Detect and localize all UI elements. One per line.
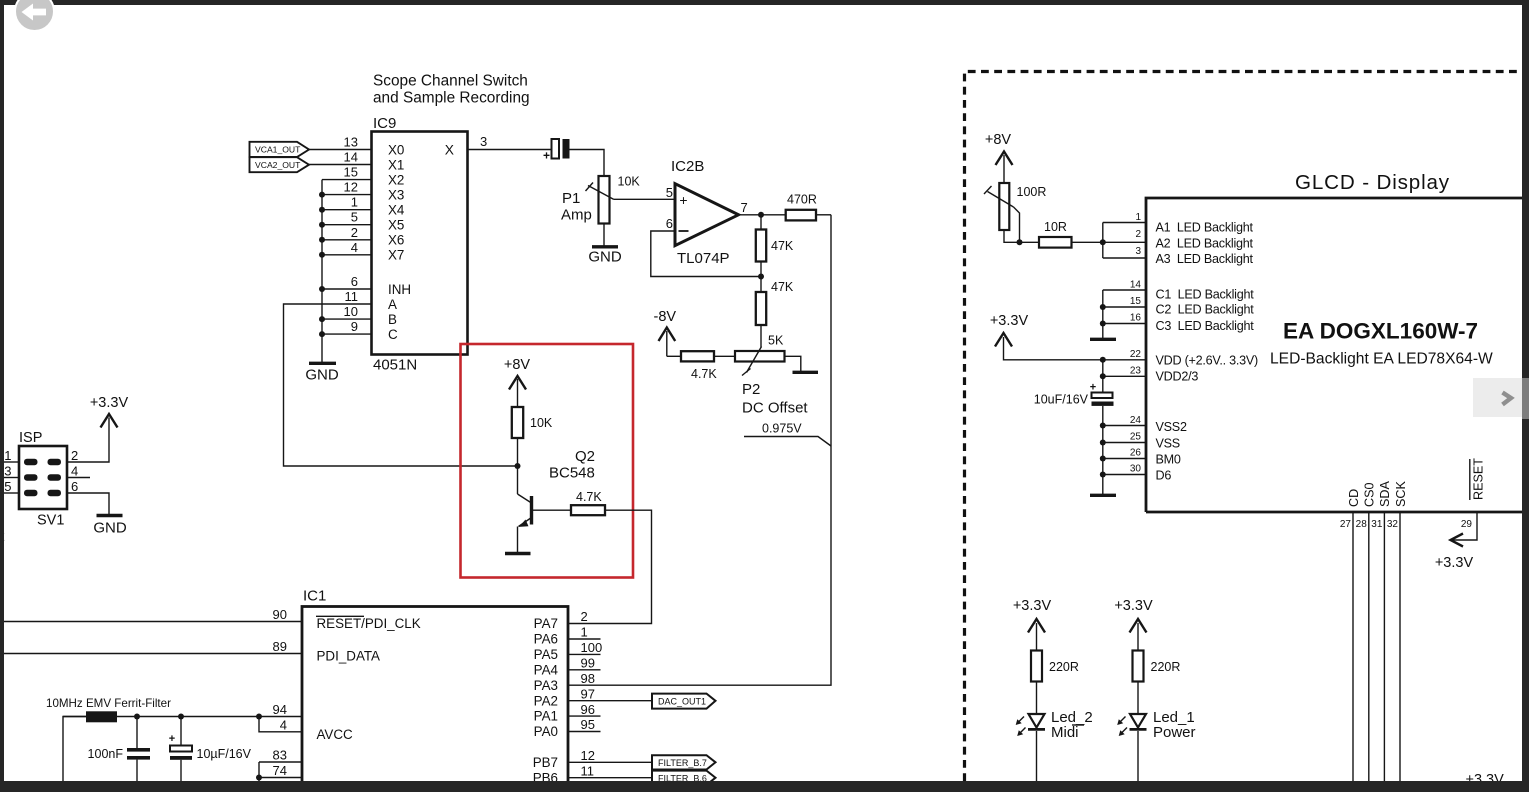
IC1 right pin names [533, 616, 559, 785]
svg-text:+8V: +8V [985, 132, 1012, 148]
ground below C3 [1090, 338, 1116, 341]
wire SV1 pin 4 stub [67, 477, 90, 479]
svg-text:+3.3V: +3.3V [1114, 598, 1153, 614]
wire RESET to +3.3V arrow [1435, 512, 1477, 571]
svg-text:100: 100 [581, 640, 603, 655]
resistor 4.7K [681, 351, 735, 381]
svg-text:0.975V: 0.975V [762, 422, 802, 436]
svg-text:+3.3V: +3.3V [90, 395, 129, 411]
svg-text:FILTER_B.7: FILTER_B.7 [658, 758, 707, 768]
wire SV1 pin 6 to ground [67, 493, 109, 515]
svg-text:15: 15 [344, 165, 358, 180]
svg-text:1: 1 [581, 625, 588, 640]
ground below D6 [1090, 494, 1116, 497]
red annotation highlight box [461, 344, 634, 578]
svg-text:3: 3 [1135, 246, 1141, 257]
wire capacitor to P1 [570, 150, 605, 177]
svg-text:4: 4 [351, 240, 358, 255]
svg-text:C1 LED Backlight: C1 LED Backlight [1156, 288, 1255, 302]
IC9 left pin stub wires [322, 180, 372, 335]
svg-text:5: 5 [666, 185, 673, 200]
svg-text:TL074P: TL074P [677, 250, 730, 267]
display bottom pin numbers 27 28 31 32 [1340, 519, 1399, 530]
svg-text:12: 12 [344, 180, 358, 195]
svg-text:96: 96 [581, 702, 595, 717]
supply +8V arrow (Q2) [504, 357, 531, 407]
svg-text:A2 LED Backlight: A2 LED Backlight [1156, 237, 1254, 251]
wire IC2B output pin7 [739, 214, 786, 216]
wire vertical net down to PA3 [568, 215, 831, 685]
svg-text:PA2: PA2 [534, 693, 558, 708]
svg-text:4.7K: 4.7K [576, 490, 602, 504]
display pin SDA [1378, 481, 1392, 781]
junction output node [758, 212, 764, 218]
svg-text:A: A [388, 297, 397, 312]
svg-text:A1 LED Backlight: A1 LED Backlight [1156, 221, 1254, 235]
svg-text:24: 24 [1130, 415, 1142, 426]
wire 10R to backlight pins [1072, 241, 1103, 243]
junction dots on IC9 bus [319, 192, 325, 338]
wire 470R to right vertical net [816, 214, 831, 216]
net flag VCA1_OUT [250, 142, 310, 157]
svg-text:EA DOGXL160W-7: EA DOGXL160W-7 [1283, 319, 1478, 344]
svg-text:32: 32 [1387, 519, 1399, 530]
svg-text:14: 14 [344, 150, 358, 165]
wire Q2 emitter to ground [517, 527, 519, 553]
svg-text:94: 94 [273, 702, 287, 717]
wire pin 4 branch [259, 717, 302, 732]
svg-text:GLCD - Display: GLCD - Display [1295, 171, 1450, 194]
svg-text:74: 74 [273, 763, 287, 778]
resistor 220R (Led_2) [1031, 651, 1079, 682]
svg-text:83: 83 [273, 748, 287, 763]
svg-text:PDI_DATA: PDI_DATA [317, 649, 381, 664]
svg-text:and Sample Recording: and Sample Recording [373, 90, 530, 107]
svg-text:6: 6 [71, 479, 78, 494]
svg-text:+3.3V: +3.3V [1435, 555, 1474, 571]
LED Led_1 Power [1117, 682, 1195, 782]
svg-text:SV1: SV1 [37, 513, 64, 529]
svg-text:5: 5 [4, 479, 11, 494]
svg-text:14: 14 [1130, 280, 1142, 291]
net flag FILTER_B.7 [652, 755, 716, 769]
wire IC9 ground bus [321, 180, 323, 362]
wire VDD2/3 pin 23 [1103, 375, 1146, 377]
svg-text:27: 27 [1340, 519, 1352, 530]
wire IC2B feedback loop pin6 to output node [651, 231, 761, 277]
svg-text:11: 11 [581, 763, 595, 778]
svg-text:11: 11 [345, 289, 359, 304]
potentiometer P2 5K DC Offset [735, 334, 808, 417]
svg-text:5: 5 [351, 210, 358, 225]
svg-text:1: 1 [351, 195, 358, 210]
display pin CD [1347, 489, 1361, 781]
svg-text:97: 97 [581, 686, 595, 701]
svg-text:SDA: SDA [1378, 481, 1392, 507]
svg-text:DC Offset: DC Offset [742, 400, 808, 417]
svg-text:GND: GND [93, 520, 127, 537]
svg-text:100nF: 100nF [88, 747, 124, 761]
resistor 47K upper [756, 215, 794, 262]
svg-text:10uF/16V: 10uF/16V [1034, 393, 1089, 407]
svg-text:BC548: BC548 [549, 465, 595, 482]
dashed region border GLCD [965, 72, 1529, 782]
ground at P2 right [785, 356, 819, 372]
svg-text:IC2B: IC2B [671, 158, 704, 175]
svg-text:10K: 10K [530, 416, 553, 430]
svg-text:GND: GND [588, 249, 622, 266]
svg-text:470R: 470R [787, 193, 817, 207]
LED Led_2 Midi [1016, 682, 1093, 782]
svg-text:4: 4 [71, 464, 78, 479]
svg-text:C2 LED Backlight: C2 LED Backlight [1156, 303, 1255, 317]
svg-text:+3.3V: +3.3V [990, 313, 1029, 329]
svg-text:VSS2: VSS2 [1156, 420, 1187, 434]
supply +3.3V arrow (Led_2) [1013, 598, 1052, 651]
display module EA DOGXL160W-7 box [1146, 171, 1529, 512]
svg-text:+: + [679, 192, 687, 208]
supply +3.3V arrow (Led_1) [1114, 598, 1153, 651]
svg-text:PA0: PA0 [534, 724, 558, 739]
net flag VCA2_OUT [250, 157, 310, 172]
svg-text:X4: X4 [388, 203, 405, 218]
wire 47K to middle node [760, 262, 762, 293]
svg-text:B: B [388, 312, 397, 327]
svg-text:RESET/PDI_CLK: RESET/PDI_CLK [317, 616, 421, 631]
capacitor 10uF/16V polarized [169, 717, 252, 783]
svg-text:4051N: 4051N [373, 357, 417, 374]
svg-text:+8V: +8V [504, 357, 531, 373]
svg-text:2: 2 [71, 448, 78, 463]
wire 47K to P2 wiper [760, 325, 762, 347]
svg-text:X7: X7 [388, 248, 404, 263]
svg-text:6: 6 [351, 274, 358, 289]
wire pin 74 branch [259, 762, 302, 778]
wire RESET/PDI_CLK from left [4, 621, 302, 623]
junction dots on filter rail [134, 714, 140, 720]
polarized coupling capacitor [543, 139, 570, 163]
svg-text:2: 2 [581, 609, 588, 624]
svg-text:X1: X1 [388, 157, 404, 172]
svg-text:X: X [445, 142, 454, 157]
ground below IC9 [305, 363, 339, 383]
ground below P1 [588, 224, 622, 266]
supply -8V arrow [654, 309, 682, 356]
svg-text:+3.3V: +3.3V [1013, 598, 1052, 614]
wires SV1 left pins [4, 462, 19, 493]
svg-text:15: 15 [1130, 296, 1142, 307]
svg-text:C: C [388, 327, 398, 342]
svg-text:23: 23 [1130, 366, 1142, 377]
IC1 left pin numbers [273, 607, 287, 778]
resistor 4.7K (Q2 base) [571, 490, 605, 515]
svg-text:2: 2 [351, 225, 358, 240]
svg-text:X0: X0 [388, 142, 404, 157]
svg-text:VSS: VSS [1156, 437, 1180, 451]
svg-text:47K: 47K [771, 239, 794, 253]
svg-text:AVCC: AVCC [317, 727, 354, 742]
svg-text:X2: X2 [388, 172, 404, 187]
svg-text:220R: 220R [1151, 660, 1181, 674]
display pin RESET (29) [1461, 458, 1486, 530]
svg-text:2: 2 [1135, 229, 1141, 240]
wire P1 wiper to IC2B +input [614, 198, 676, 200]
back arrow icon [15, 0, 55, 30]
svg-text:VDD2/3: VDD2/3 [1156, 370, 1199, 384]
display pin labels left [1156, 221, 1259, 483]
svg-text:16: 16 [1130, 313, 1142, 324]
wire 10K to collector node [517, 438, 519, 494]
wire PB7 to FILTER_B.7 [568, 761, 652, 763]
svg-text:4: 4 [280, 717, 287, 732]
wire pin 83 [259, 761, 302, 763]
svg-text:10K: 10K [618, 175, 641, 189]
wire VCA2_OUT to IC9 pin 14 [309, 164, 372, 166]
potentiometer P1 10K [561, 175, 640, 224]
svg-text:BM0: BM0 [1156, 453, 1181, 467]
next page button [1473, 378, 1522, 417]
wire PA2 to DAC_OUT1 [568, 700, 652, 702]
viewer frame bottom bar [0, 781, 1529, 792]
svg-text:X3: X3 [388, 187, 404, 202]
svg-text:22: 22 [1130, 349, 1142, 360]
svg-text:PA3: PA3 [534, 678, 558, 693]
capacitor 10uF/16V (display) [1034, 382, 1114, 407]
wire VCA1_OUT to IC9 pin 13 [309, 149, 372, 151]
svg-text:PB7: PB7 [533, 755, 558, 770]
svg-text:DAC_OUT1: DAC_OUT1 [658, 697, 706, 707]
svg-text:INH: INH [388, 282, 411, 297]
wire AVCC filter rail pin 94 [63, 716, 302, 718]
svg-text:47K: 47K [771, 280, 794, 294]
viewer frame top bar [0, 0, 1529, 5]
svg-text:90: 90 [273, 607, 287, 622]
svg-text:PA1: PA1 [534, 709, 558, 724]
supply +3.3V arrow (VDD) [990, 313, 1146, 360]
op-amp IC2B TL074P [666, 158, 748, 267]
svg-text:D6: D6 [1156, 469, 1172, 483]
svg-text:7: 7 [741, 200, 748, 215]
svg-text:P1: P1 [562, 190, 580, 207]
svg-text:13: 13 [344, 135, 358, 150]
svg-text:1: 1 [4, 448, 11, 463]
potentiometer 100R [984, 183, 1046, 242]
back button [14, 0, 55, 32]
svg-text:VDD (+2.6V.. 3.3V): VDD (+2.6V.. 3.3V) [1156, 354, 1259, 368]
svg-text:+: + [543, 149, 550, 163]
svg-text:29: 29 [1461, 519, 1473, 530]
svg-text:10µF/16V: 10µF/16V [197, 747, 252, 761]
wire PB6 to FILTER_B.6 [568, 777, 652, 779]
svg-text:GND: GND [305, 367, 339, 384]
resistor 10R [1039, 220, 1072, 248]
svg-text:X5: X5 [388, 218, 404, 233]
wire 100R bottom to 10R [1004, 230, 1039, 242]
wire PDI_DATA from left [4, 653, 302, 655]
ground Q2 emitter [505, 552, 531, 555]
scrollbar track [1522, 0, 1529, 792]
svg-text:25: 25 [1130, 432, 1142, 443]
junction collector node [515, 463, 521, 469]
svg-text:SCK: SCK [1394, 481, 1408, 507]
ground at SV1 [93, 516, 127, 537]
svg-text:220R: 220R [1049, 660, 1079, 674]
svg-text:89: 89 [273, 639, 287, 654]
svg-text:95: 95 [581, 717, 595, 732]
svg-text:Scope Channel Switch: Scope Channel Switch [373, 73, 528, 90]
svg-text:28: 28 [1356, 519, 1368, 530]
wire Q2 base [533, 509, 571, 511]
resistor 220R (Led_1) [1133, 651, 1181, 682]
svg-text:6: 6 [666, 216, 673, 231]
net flag FILTER_B.6 [652, 771, 716, 785]
svg-text:-8V: -8V [654, 309, 677, 325]
svg-text:Amp: Amp [561, 207, 592, 224]
connector SV1 ISP header [19, 430, 67, 529]
viewer frame left bar [0, 0, 4, 792]
svg-text:CS0: CS0 [1363, 483, 1377, 508]
transistor Q2 BC548 [518, 448, 596, 527]
resistor 470R [786, 193, 817, 221]
svg-text:P2: P2 [742, 381, 760, 398]
IC1 right pin stub wires [568, 639, 601, 732]
svg-text:Midi: Midi [1051, 724, 1079, 741]
svg-text:5K: 5K [768, 334, 784, 348]
svg-text:PA7: PA7 [534, 616, 558, 631]
svg-text:VCA2_OUT: VCA2_OUT [255, 160, 301, 170]
wire filter left leg [63, 717, 86, 783]
display pin CS0 [1363, 483, 1377, 782]
svg-text:ISP: ISP [19, 430, 42, 446]
SV1 pin numbers [4, 448, 78, 494]
display pin numbers left [1130, 212, 1142, 475]
svg-text:PA5: PA5 [534, 647, 558, 662]
svg-text:12: 12 [581, 748, 595, 763]
next chevron icon [1473, 378, 1522, 417]
wires display pins C1-C3 to ground [1100, 290, 1146, 339]
svg-text:PA4: PA4 [534, 662, 559, 677]
svg-text:PA6: PA6 [534, 632, 558, 647]
svg-text:3: 3 [480, 134, 487, 149]
scrollbar thumb [1522, 378, 1529, 419]
wire IC9 pin X(3) to coupling capacitor [468, 149, 552, 151]
svg-text:Q2: Q2 [575, 448, 595, 465]
svg-text:3: 3 [4, 464, 11, 479]
wires display pins 1-3 [1103, 223, 1146, 259]
svg-text:30: 30 [1130, 464, 1142, 475]
op IC9 box 4051N [372, 115, 468, 374]
IC1 right pin numbers [581, 609, 603, 778]
svg-text:10R: 10R [1044, 220, 1067, 234]
resistor 47K lower [756, 280, 794, 325]
svg-text:IC9: IC9 [373, 115, 396, 132]
svg-text:A3 LED Backlight: A3 LED Backlight [1156, 252, 1254, 266]
svg-text:4.7K: 4.7K [691, 367, 717, 381]
svg-text:31: 31 [1371, 519, 1383, 530]
svg-text:Power: Power [1153, 724, 1196, 741]
svg-text:IC1: IC1 [303, 588, 326, 605]
svg-text:10: 10 [344, 304, 358, 319]
svg-text:LED-Backlight EA LED78X64-W: LED-Backlight EA LED78X64-W [1270, 351, 1493, 368]
svg-text:C3 LED Backlight: C3 LED Backlight [1156, 319, 1255, 333]
IC9 pin numbers [344, 135, 358, 335]
wire IC9 pin A (11) to Q2 collector node [284, 304, 518, 466]
wire 4.7K to IC1 PA7 [568, 510, 652, 623]
capacitor 100nF [88, 717, 150, 783]
svg-text:CD: CD [1347, 489, 1361, 507]
net label 0.975V callout [744, 422, 831, 447]
svg-text:100R: 100R [1017, 185, 1047, 199]
wires VSS2/VSS/BM0/D6 to ground [1100, 406, 1146, 495]
resistor 10K (Q2 collector) [512, 407, 553, 438]
svg-text:26: 26 [1130, 448, 1142, 459]
svg-text:VCA1_OUT: VCA1_OUT [255, 145, 301, 155]
svg-text:9: 9 [351, 319, 358, 334]
svg-text:RESET: RESET [1472, 458, 1486, 500]
svg-text:98: 98 [581, 671, 595, 686]
supply +3.3V arrow at SV1 pin 2 [67, 395, 128, 462]
op IC1 box (MCU) [302, 588, 568, 792]
svg-text:99: 99 [581, 656, 595, 671]
svg-text:1: 1 [1135, 212, 1141, 223]
svg-text:10MHz EMV Ferrit-Filter: 10MHz EMV Ferrit-Filter [46, 697, 171, 710]
supply +8V arrow (backlight) [985, 132, 1013, 183]
title: Scope Channel Switch and Sample Recording [373, 73, 530, 107]
svg-text:+: + [169, 733, 175, 745]
ferrite bead [86, 711, 117, 722]
net flag DAC_OUT1 [652, 694, 716, 709]
display pin SCK [1394, 481, 1408, 781]
svg-text:X6: X6 [388, 233, 404, 248]
